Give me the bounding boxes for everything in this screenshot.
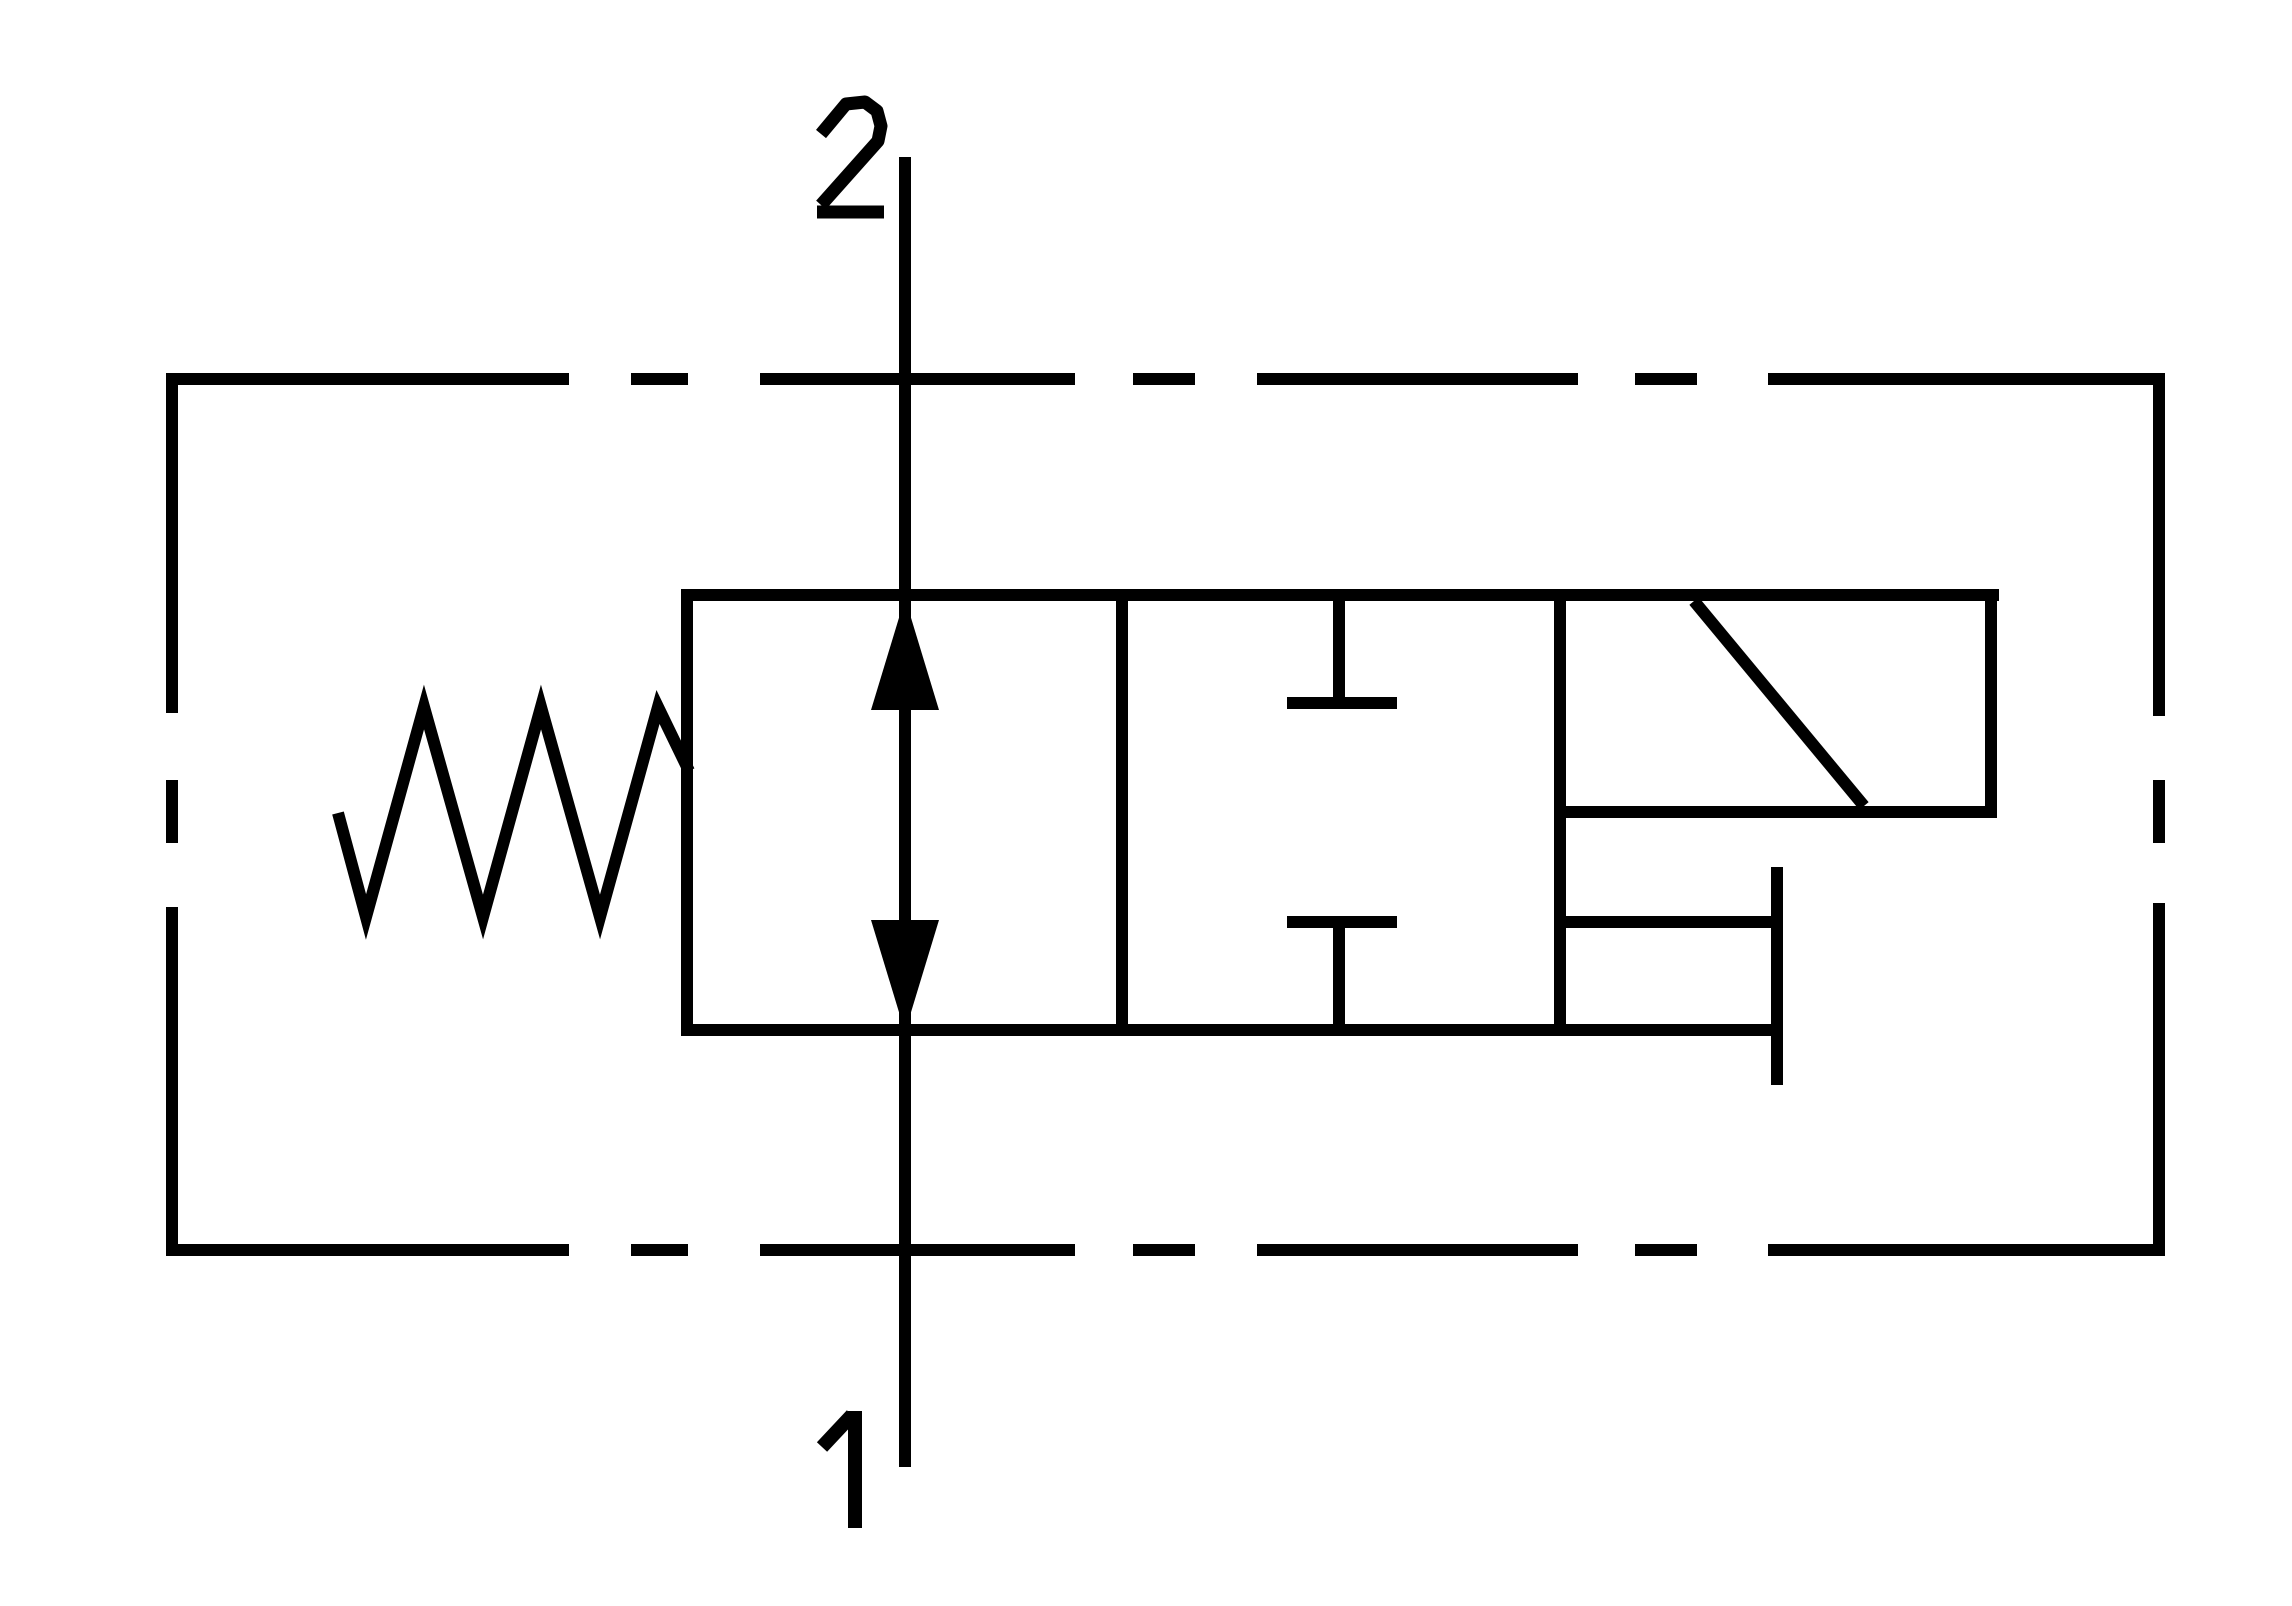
label 2: [817, 102, 884, 212]
blocked port top crossbar: [1287, 697, 1397, 709]
valve body top edge: [681, 589, 1999, 601]
pin vertical bar: [1771, 867, 1783, 1085]
down arrowhead: [871, 920, 939, 1032]
valve body right edge: [1554, 589, 1566, 1036]
blocked port bottom crossbar: [1287, 916, 1397, 928]
envelope right border (dash-dot): [2153, 373, 2165, 1256]
valve body bottom edge: [681, 1024, 1777, 1036]
blocked port top stem: [1333, 595, 1345, 703]
blocked port bottom stem: [1333, 922, 1345, 1030]
solenoid box right edge: [1985, 589, 1997, 818]
envelope top border (dash-dot): [166, 373, 2165, 385]
solenoid box bottom edge: [1554, 806, 1997, 818]
label 1: [822, 1411, 855, 1528]
envelope bottom border (dash-dot): [166, 1244, 2165, 1256]
pin link upper line: [1560, 916, 1777, 928]
up arrowhead: [871, 598, 939, 710]
envelope left border (dash-dot): [166, 373, 178, 1256]
port line 2-1: [899, 157, 911, 1467]
valve body divider: [1116, 595, 1128, 1030]
spring: [338, 707, 689, 917]
solenoid diagonal: [1694, 601, 1864, 806]
valve body left edge: [681, 589, 693, 1036]
